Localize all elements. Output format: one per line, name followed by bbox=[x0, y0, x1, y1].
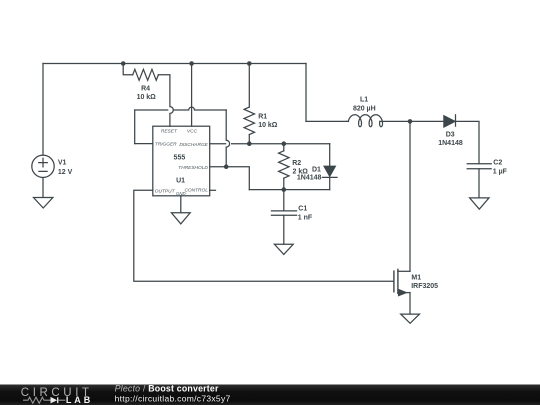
wire C1 top lead bbox=[283, 190, 285, 211]
wire threshold bottom horizontal bbox=[249, 189, 329, 191]
wire C2 bottom lead bbox=[478, 169, 480, 198]
wire trigger loop horizontal with hops bbox=[135, 107, 227, 110]
wire step down to L1 level bbox=[305, 64, 307, 122]
ground below C2 bbox=[470, 198, 489, 209]
wire trigger left vertical bbox=[134, 110, 136, 144]
wire discharge with hop bbox=[210, 143, 330, 145]
label R2 value bbox=[292, 160, 308, 176]
svg-text:IRF3205: IRF3205 bbox=[411, 283, 438, 290]
wire top rail bbox=[43, 63, 306, 65]
wire V1 bottom lead bbox=[42, 178, 44, 198]
svg-text:C2: C2 bbox=[493, 160, 502, 167]
diode D1 bbox=[322, 166, 337, 177]
svg-text:C1: C1 bbox=[298, 205, 307, 212]
svg-text:OUTPUT: OUTPUT bbox=[155, 188, 176, 194]
wire D1 top lead bbox=[329, 144, 331, 167]
svg-text:RESET: RESET bbox=[161, 129, 178, 135]
wire trigger-threshold vertical bbox=[226, 110, 229, 167]
wire output to gate bbox=[134, 190, 394, 281]
wire R1 bottom lead bbox=[248, 135, 250, 144]
node junction R1 bottom bbox=[247, 141, 252, 146]
svg-text:Plecto / Boost converter: Plecto / Boost converter bbox=[115, 384, 219, 394]
svg-text:R4: R4 bbox=[141, 85, 150, 92]
op-amp U1 555 timer box bbox=[153, 126, 210, 196]
svg-text:http://circuitlab.com/c73x5y7: http://circuitlab.com/c73x5y7 bbox=[115, 393, 231, 403]
wire M1 drain vertical bbox=[409, 121, 411, 271]
svg-text:10 kΩ: 10 kΩ bbox=[258, 122, 278, 129]
wire D3 to C2 bbox=[456, 121, 480, 163]
wire threshold bbox=[210, 167, 250, 190]
node junction C1 top bbox=[282, 187, 287, 192]
wire R4 left lead bbox=[123, 64, 133, 75]
svg-text:DISCHARGE: DISCHARGE bbox=[179, 142, 208, 148]
node junction R4 top bbox=[121, 61, 126, 66]
svg-text:V1: V1 bbox=[58, 160, 67, 167]
diode D3 bbox=[444, 115, 456, 127]
wire V1 top lead bbox=[42, 64, 44, 156]
svg-text:M1: M1 bbox=[411, 275, 421, 282]
node junction R1 top bbox=[247, 61, 252, 66]
resistor R4 bbox=[133, 69, 159, 80]
svg-text:12 V: 12 V bbox=[58, 169, 73, 176]
svg-text:THRESHOLD: THRESHOLD bbox=[178, 165, 208, 171]
svg-text:TRIGGER: TRIGGER bbox=[155, 142, 177, 148]
svg-text:LAB: LAB bbox=[66, 395, 93, 405]
node junction trigger-threshold bbox=[224, 164, 229, 169]
wire D1 bottom lead bbox=[329, 177, 331, 189]
label M1 value bbox=[411, 275, 438, 291]
svg-text:1 nF: 1 nF bbox=[298, 214, 313, 221]
node junction L1-D3-M1 bbox=[408, 119, 413, 124]
wire L1 to D3 bbox=[347, 120, 444, 122]
wire 555 GND lead bbox=[180, 196, 182, 213]
wire R2 top lead bbox=[283, 144, 285, 151]
svg-text:L1: L1 bbox=[360, 97, 368, 104]
svg-text:1 µF: 1 µF bbox=[493, 168, 508, 175]
svg-text:D1: D1 bbox=[312, 166, 321, 173]
label R4 value bbox=[137, 85, 157, 100]
footer bar bbox=[0, 385, 540, 405]
svg-text:VCC: VCC bbox=[187, 129, 198, 135]
wire R2 bottom lead bbox=[283, 178, 285, 189]
svg-text:10 kΩ: 10 kΩ bbox=[137, 94, 157, 101]
label C2 value bbox=[493, 160, 508, 176]
svg-text:555: 555 bbox=[174, 155, 186, 162]
wire C1 bottom lead bbox=[283, 215, 285, 244]
svg-text:R1: R1 bbox=[258, 114, 267, 121]
svg-text:1N4148: 1N4148 bbox=[297, 174, 322, 181]
wire trigger pin lead bbox=[135, 143, 153, 145]
transistor M1 bbox=[394, 269, 410, 295]
label D3 value bbox=[438, 132, 463, 147]
wire rail to L1 bbox=[306, 120, 347, 122]
inductor L1 bbox=[348, 115, 382, 127]
wire control stub bbox=[210, 189, 216, 191]
wire R1 top lead bbox=[248, 64, 250, 108]
svg-text:1N4148: 1N4148 bbox=[438, 140, 463, 147]
label V1 value bbox=[58, 160, 73, 176]
ground below 555 bbox=[171, 213, 190, 224]
ground below C1 bbox=[274, 244, 293, 254]
node junction VCC top bbox=[189, 61, 194, 66]
svg-text:CONTROL: CONTROL bbox=[184, 188, 208, 194]
resistor R1 bbox=[244, 107, 254, 134]
svg-text:D3: D3 bbox=[446, 132, 455, 139]
footer logo schematic line bbox=[23, 397, 65, 403]
svg-text:R2: R2 bbox=[292, 160, 301, 167]
label L1 value bbox=[353, 97, 376, 113]
label C1 value bbox=[298, 205, 313, 221]
ground below M1 bbox=[401, 314, 420, 323]
ground below V1 bbox=[34, 198, 53, 209]
capacitor C1 bbox=[271, 211, 296, 215]
voltage source V1 bbox=[32, 155, 54, 177]
wire M1 source lead bbox=[409, 293, 411, 314]
capacitor C2 bbox=[467, 164, 491, 169]
svg-text:820 µH: 820 µH bbox=[353, 105, 376, 112]
resistor R2 bbox=[279, 151, 289, 178]
wire VCC vertical bbox=[191, 64, 193, 127]
label D1 value bbox=[297, 166, 322, 181]
label R1 value bbox=[258, 114, 278, 129]
node junction R2 top bbox=[282, 141, 287, 146]
svg-text:U1: U1 bbox=[176, 177, 185, 184]
wire R4 right lead to RESET bbox=[158, 75, 173, 126]
